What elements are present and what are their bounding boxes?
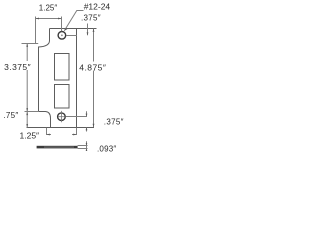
svg-text:.375″: .375″: [81, 14, 101, 23]
svg-text:.75″: .75″: [3, 111, 18, 120]
svg-text:1.25″: 1.25″: [20, 131, 40, 141]
svg-text:4.875″: 4.875″: [79, 62, 106, 72]
svg-text:.375″: .375″: [104, 117, 124, 126]
svg-text:#12-24: #12-24: [84, 1, 111, 11]
svg-text:.093″: .093″: [97, 145, 116, 154]
svg-text:1.25″: 1.25″: [39, 3, 58, 12]
svg-text:3.375″: 3.375″: [4, 62, 31, 72]
